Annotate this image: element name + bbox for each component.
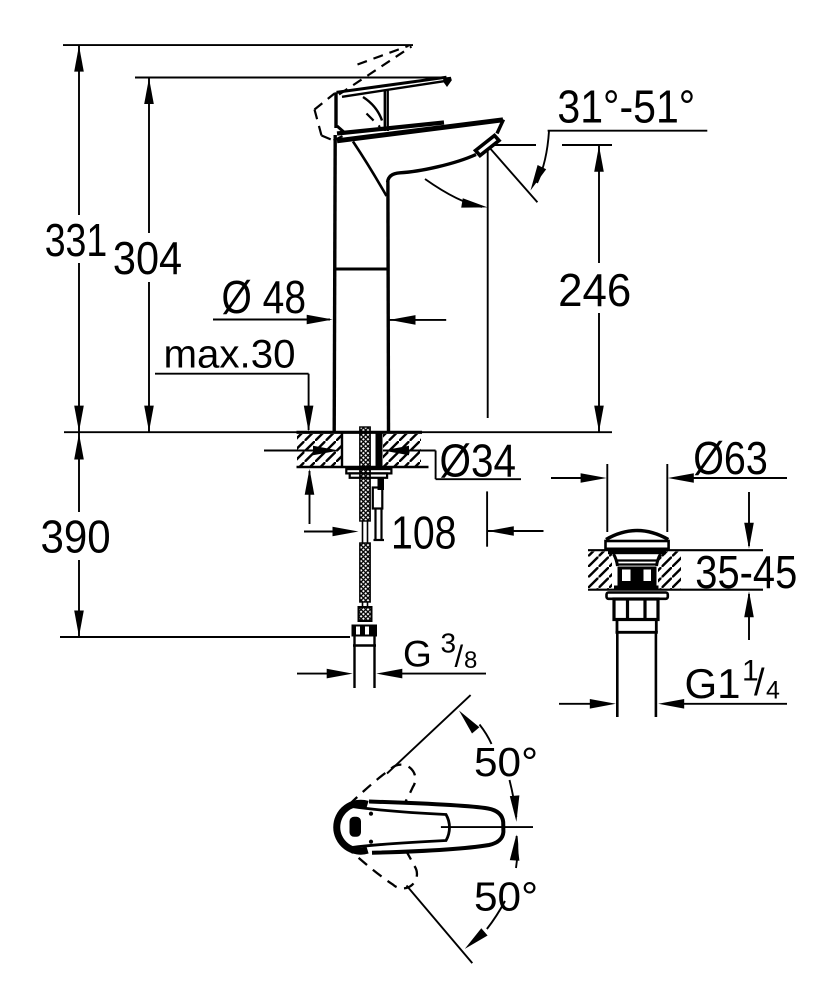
dim 304 [113, 78, 182, 433]
svg-text:331: 331 [45, 214, 108, 266]
dim 390 [41, 433, 111, 637]
dim 35-45 [695, 492, 797, 640]
dim G1 1/4 [559, 655, 787, 709]
dim D48 [213, 271, 446, 325]
svg-text:/: / [455, 639, 464, 674]
faucet lever [336, 77, 452, 134]
svg-text:8: 8 [464, 647, 477, 674]
drain flange [607, 593, 668, 599]
faucet body column [334, 135, 388, 432]
dim 246 [558, 145, 631, 432]
flow direction line [488, 146, 538, 203]
extension line top 304 [135, 77, 446, 79]
popup drain cap [606, 531, 669, 555]
top view handle white mask [348, 802, 503, 853]
deck line [64, 431, 612, 433]
svg-text:G1: G1 [685, 660, 741, 707]
hose tube mid [362, 521, 364, 543]
top view handle inner line [352, 807, 449, 848]
drain tailpipe [616, 632, 619, 717]
deck slab [297, 432, 429, 467]
dim 108 [304, 506, 544, 558]
svg-text:max.30: max.30 [164, 333, 296, 377]
dim D63 [551, 432, 787, 532]
extension line bottom 390 [60, 636, 350, 638]
svg-text:50°: 50° [474, 739, 538, 785]
top view handle boss ring [337, 803, 368, 851]
hose tube low [362, 602, 364, 607]
basin hatch right [658, 552, 681, 589]
svg-text:50°: 50° [474, 873, 538, 919]
svg-text:35-45: 35-45 [695, 546, 797, 598]
top view centerline [441, 826, 533, 828]
drain body in deck [614, 554, 661, 591]
basin hatch left [588, 552, 612, 589]
top view dots [369, 812, 373, 816]
svg-text:/: / [754, 662, 765, 704]
top view handle outline [369, 802, 503, 853]
swing arc arrow [425, 179, 488, 208]
braided hose lower [360, 543, 370, 602]
svg-text:246: 246 [558, 264, 631, 316]
faucet spout [337, 120, 504, 183]
svg-text:Ø34: Ø34 [440, 435, 517, 487]
hose end nut [352, 625, 378, 637]
top view upper diagonal [387, 695, 471, 773]
dim D34 [264, 435, 521, 487]
svg-text:G: G [403, 634, 432, 675]
faucet body crease arc [353, 142, 387, 197]
basin deck lines [588, 549, 763, 551]
svg-text:390: 390 [41, 511, 111, 563]
G3/8 pipe [353, 637, 376, 689]
faucet dashed lever (raised position) [315, 46, 412, 141]
aerator [476, 136, 500, 156]
washer small [350, 473, 387, 477]
hose collar [359, 607, 372, 621]
washer large [346, 469, 391, 473]
extension line outlet 246 [488, 144, 536, 146]
svg-text:4: 4 [766, 677, 780, 705]
drain tail joint [616, 620, 658, 633]
top view dashed handle down [350, 819, 430, 901]
svg-text:Ø 48: Ø 48 [222, 271, 307, 323]
svg-text:31°-51°: 31°-51° [557, 81, 695, 133]
drain locknut [614, 599, 658, 620]
outlet vertical reference line [487, 146, 489, 418]
svg-text:304: 304 [113, 232, 182, 284]
dim 50 lower [465, 835, 538, 949]
top view lever slot [350, 817, 362, 837]
dim max.30 [155, 333, 314, 524]
svg-text:108: 108 [391, 506, 457, 558]
braided hose upper [360, 427, 370, 521]
dim G3/8 [297, 628, 486, 679]
dim 331 [45, 45, 108, 432]
mounting bracket [373, 488, 384, 541]
dim 50 upper [459, 711, 538, 822]
top view dashed handle up [349, 753, 428, 835]
top view lower diagonal [407, 886, 473, 964]
extension line top 331 [63, 44, 413, 46]
mounting stud [376, 433, 383, 478]
svg-text:Ø63: Ø63 [693, 432, 768, 484]
label 31-51 degrees [531, 81, 708, 191]
